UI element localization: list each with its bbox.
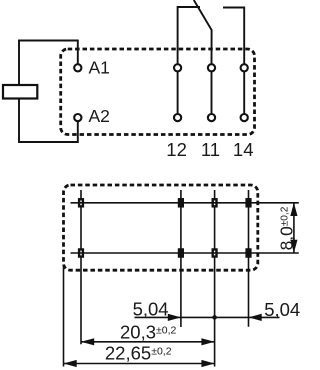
svg-text:12: 12 (166, 139, 187, 160)
svg-text:5,04: 5,04 (133, 299, 169, 320)
svg-text:5,04: 5,04 (264, 299, 300, 320)
svg-text:11: 11 (201, 139, 220, 160)
svg-text:A1: A1 (89, 58, 110, 78)
svg-text:A2: A2 (89, 106, 110, 126)
svg-text:14: 14 (233, 139, 254, 160)
